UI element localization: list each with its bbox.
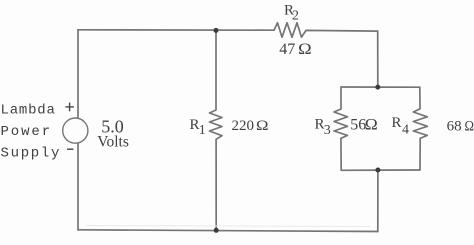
svg-text:R: R	[392, 115, 402, 131]
svg-text:Ω: Ω	[256, 118, 269, 134]
svg-text:Lambda: Lambda	[1, 103, 56, 119]
svg-text:68: 68	[447, 119, 462, 135]
svg-text:220: 220	[232, 118, 255, 134]
svg-text:47: 47	[279, 41, 295, 58]
svg-text:Volts: Volts	[97, 133, 129, 150]
svg-text:Ω: Ω	[365, 117, 378, 134]
svg-text:2: 2	[292, 8, 299, 23]
svg-text:3: 3	[324, 123, 331, 138]
svg-text:Ω: Ω	[465, 119, 474, 135]
svg-text:Ω: Ω	[298, 41, 312, 58]
svg-text:1: 1	[199, 123, 206, 138]
svg-text:Power: Power	[1, 124, 53, 140]
svg-text:4: 4	[402, 122, 409, 137]
svg-text:Supply: Supply	[1, 146, 62, 162]
